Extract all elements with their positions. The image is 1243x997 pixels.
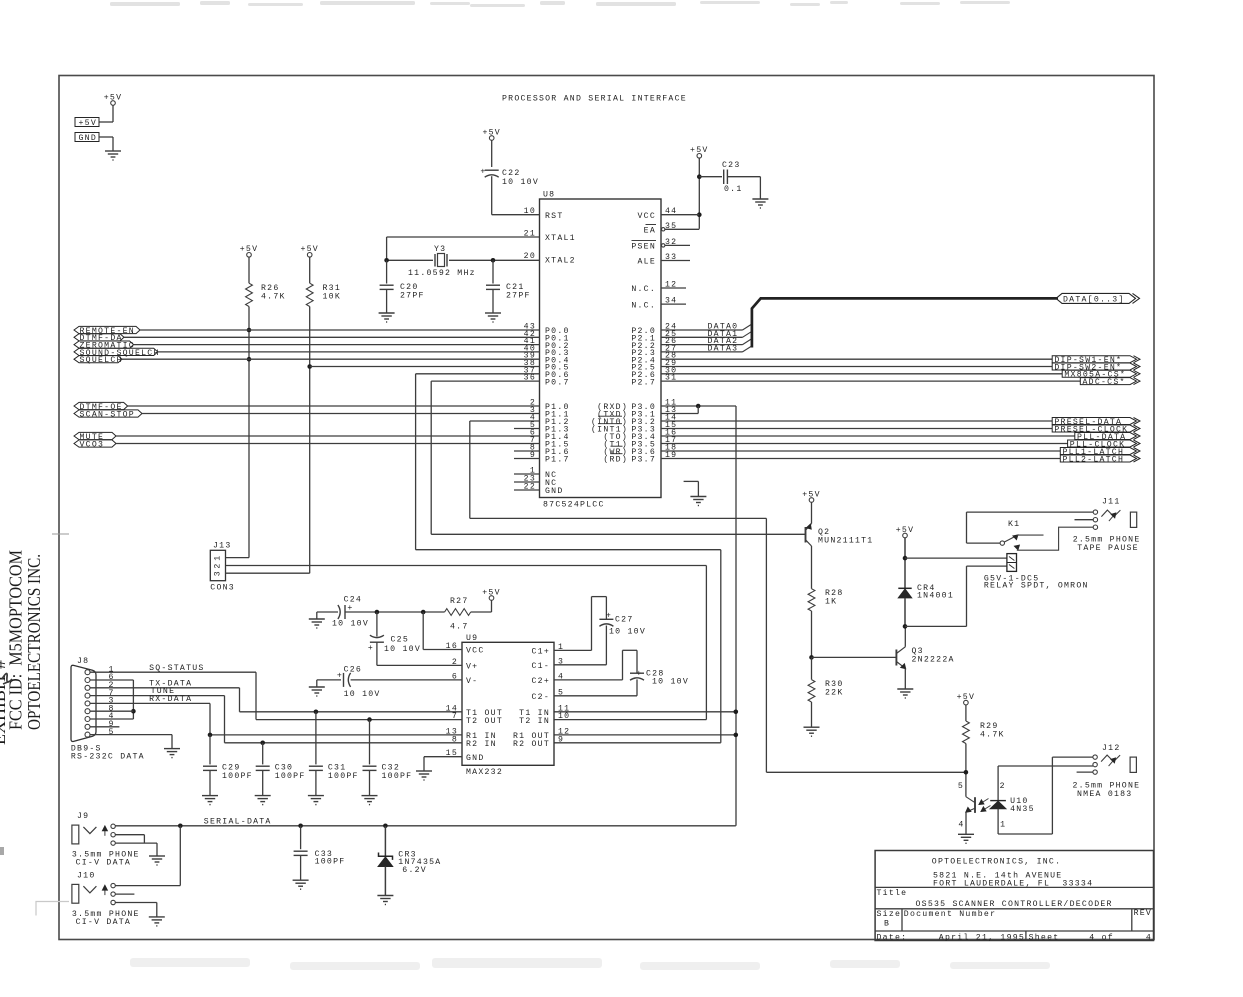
svg-text:DATA3: DATA3 bbox=[708, 344, 739, 353]
svg-text:V-: V- bbox=[466, 677, 478, 686]
svg-text:11.0592 MHz: 11.0592 MHz bbox=[408, 269, 476, 278]
svg-text:N.C.: N.C. bbox=[631, 285, 656, 294]
svg-text:GND: GND bbox=[79, 134, 98, 143]
svg-text:4: 4 bbox=[958, 821, 964, 830]
svg-text:C1+: C1+ bbox=[532, 648, 551, 657]
svg-text:EXHIBIT #: EXHIBIT # bbox=[0, 660, 9, 745]
svg-text:SCAN-STOP: SCAN-STOP bbox=[80, 410, 135, 419]
svg-text:REV: REV bbox=[1134, 909, 1153, 918]
svg-text:P0.7: P0.7 bbox=[545, 378, 570, 387]
svg-text:+: + bbox=[368, 644, 374, 653]
svg-text:10 10V: 10 10V bbox=[502, 178, 539, 187]
svg-text:MAX232: MAX232 bbox=[466, 768, 503, 777]
svg-text:GND: GND bbox=[545, 487, 564, 496]
svg-text:100PF: 100PF bbox=[315, 857, 346, 866]
svg-text:April 21, 1995: April 21, 1995 bbox=[939, 932, 1025, 942]
svg-text:B: B bbox=[884, 919, 890, 928]
svg-text:PSEN: PSEN bbox=[631, 243, 656, 252]
svg-text:XTAL1: XTAL1 bbox=[545, 234, 576, 243]
svg-text:+5V: +5V bbox=[802, 490, 821, 499]
svg-text:R2 OUT: R2 OUT bbox=[513, 740, 550, 749]
svg-text:T2 IN: T2 IN bbox=[519, 717, 550, 726]
svg-text:J11: J11 bbox=[1102, 498, 1121, 507]
svg-text:ALE: ALE bbox=[638, 258, 657, 267]
svg-text:C2-: C2- bbox=[532, 693, 551, 702]
svg-text:Sheet: Sheet bbox=[1029, 932, 1060, 942]
svg-text:3: 3 bbox=[214, 570, 223, 576]
svg-text:V+: V+ bbox=[466, 663, 478, 672]
svg-text:RX-DATA: RX-DATA bbox=[149, 695, 192, 704]
svg-text:10K: 10K bbox=[323, 293, 342, 302]
svg-text:5: 5 bbox=[109, 728, 115, 737]
svg-text:10 10V: 10 10V bbox=[384, 645, 421, 654]
svg-text:Document Number: Document Number bbox=[904, 909, 996, 919]
svg-text:C22: C22 bbox=[502, 169, 521, 178]
svg-text:27PF: 27PF bbox=[506, 292, 531, 301]
svg-text:P3.7: P3.7 bbox=[631, 456, 656, 465]
svg-text:+5V: +5V bbox=[482, 588, 501, 597]
svg-text:+5V: +5V bbox=[896, 526, 915, 535]
svg-text:100PF: 100PF bbox=[222, 772, 253, 781]
svg-text:22K: 22K bbox=[825, 689, 844, 698]
svg-text:RELAY SPDT, OMRON: RELAY SPDT, OMRON bbox=[984, 582, 1089, 591]
svg-text:+5V: +5V bbox=[300, 245, 319, 254]
svg-text:4.7K: 4.7K bbox=[980, 731, 1005, 740]
svg-text:XTAL2: XTAL2 bbox=[545, 257, 576, 266]
svg-text:C27: C27 bbox=[615, 616, 634, 625]
svg-text:4N35: 4N35 bbox=[1010, 805, 1035, 814]
svg-text:1: 1 bbox=[1000, 821, 1006, 830]
svg-text:2: 2 bbox=[1000, 782, 1006, 791]
svg-text:87C524PLCC: 87C524PLCC bbox=[543, 501, 605, 510]
svg-text:+5V: +5V bbox=[957, 693, 976, 702]
svg-text:VCC: VCC bbox=[466, 647, 485, 656]
svg-text:10 10V: 10 10V bbox=[652, 678, 689, 687]
svg-text:1N4001: 1N4001 bbox=[917, 592, 954, 601]
svg-text:+: + bbox=[480, 168, 486, 177]
svg-text:MUN2111T1: MUN2111T1 bbox=[818, 537, 873, 546]
svg-text:+: + bbox=[636, 670, 642, 679]
svg-text:SERIAL-DATA: SERIAL-DATA bbox=[204, 818, 272, 827]
svg-text:10 10V: 10 10V bbox=[609, 628, 646, 637]
svg-text:1: 1 bbox=[214, 555, 223, 561]
svg-text:R27: R27 bbox=[450, 597, 469, 606]
svg-text:OPTOELECTRONICS INC.: OPTOELECTRONICS INC. bbox=[24, 554, 44, 730]
svg-text:9: 9 bbox=[558, 735, 564, 744]
svg-text:VCO3: VCO3 bbox=[80, 440, 105, 449]
svg-text:100PF: 100PF bbox=[382, 772, 413, 781]
svg-text:C2+: C2+ bbox=[532, 677, 551, 686]
svg-text:5: 5 bbox=[958, 782, 964, 791]
svg-text:+5V: +5V bbox=[104, 93, 123, 102]
svg-text:100PF: 100PF bbox=[328, 772, 359, 781]
svg-text:Y3: Y3 bbox=[434, 245, 446, 254]
svg-text:J9: J9 bbox=[77, 812, 89, 821]
svg-text:VCC: VCC bbox=[638, 212, 657, 221]
svg-text:+5V: +5V bbox=[240, 245, 259, 254]
svg-text:C23: C23 bbox=[722, 161, 741, 170]
svg-text:0.1: 0.1 bbox=[724, 185, 743, 194]
svg-text:DATA[0..3]: DATA[0..3] bbox=[1063, 295, 1125, 305]
svg-text:2N2222A: 2N2222A bbox=[912, 656, 955, 665]
svg-text:P2.7: P2.7 bbox=[631, 378, 656, 387]
svg-text:EA: EA bbox=[644, 227, 656, 236]
svg-text:1K: 1K bbox=[825, 598, 837, 607]
svg-text:PROCESSOR AND SERIAL INTERFACE: PROCESSOR AND SERIAL INTERFACE bbox=[502, 95, 687, 104]
svg-text:J10: J10 bbox=[77, 872, 96, 881]
svg-text:CI-V DATA: CI-V DATA bbox=[76, 859, 131, 868]
svg-text:4.7: 4.7 bbox=[450, 623, 469, 632]
svg-text:Size: Size bbox=[877, 909, 902, 919]
svg-text:+5V: +5V bbox=[79, 119, 98, 128]
svg-text:RS-232C DATA: RS-232C DATA bbox=[71, 752, 145, 761]
svg-text:4.7K: 4.7K bbox=[261, 293, 286, 302]
svg-text:2: 2 bbox=[214, 562, 223, 568]
svg-text:C25: C25 bbox=[391, 636, 410, 645]
svg-text:OPTOELECTRONICS, INC.: OPTOELECTRONICS, INC. bbox=[932, 858, 1061, 867]
svg-text:SQ-STATUS: SQ-STATUS bbox=[149, 664, 204, 673]
svg-text:CI-V DATA: CI-V DATA bbox=[76, 918, 131, 927]
svg-text:U9: U9 bbox=[466, 634, 478, 643]
svg-text:Title: Title bbox=[877, 888, 908, 898]
svg-text:Date:: Date: bbox=[877, 933, 908, 942]
svg-text:+: + bbox=[606, 612, 612, 621]
svg-text:+: + bbox=[337, 672, 343, 681]
svg-text:10 10V: 10 10V bbox=[344, 690, 381, 699]
svg-text:U8: U8 bbox=[543, 191, 555, 200]
svg-text:N.C.: N.C. bbox=[631, 301, 656, 310]
svg-text:C1-: C1- bbox=[532, 662, 551, 671]
svg-text:C26: C26 bbox=[344, 666, 363, 675]
svg-text:+5V: +5V bbox=[690, 146, 709, 155]
svg-text:+5V: +5V bbox=[482, 128, 501, 137]
svg-text:GND: GND bbox=[466, 754, 485, 763]
svg-text:6.2V: 6.2V bbox=[402, 866, 427, 875]
svg-text:PLL2-LATCH: PLL2-LATCH bbox=[1063, 455, 1125, 464]
svg-text:(RD): (RD) bbox=[603, 455, 628, 465]
svg-text:J8: J8 bbox=[77, 657, 89, 666]
svg-text:100PF: 100PF bbox=[275, 772, 306, 781]
svg-text:OS535 SCANNER CONTROLLER/DECOD: OS535 SCANNER CONTROLLER/DECODER bbox=[916, 899, 1113, 909]
svg-text:27PF: 27PF bbox=[400, 292, 425, 301]
svg-text:4: 4 bbox=[1146, 933, 1152, 942]
svg-text:RST: RST bbox=[545, 212, 564, 221]
svg-text:J13: J13 bbox=[213, 542, 232, 551]
svg-text:K1: K1 bbox=[1008, 520, 1020, 529]
svg-text:10: 10 bbox=[558, 712, 570, 721]
svg-text:4 of: 4 of bbox=[1089, 932, 1114, 942]
svg-text:T2 OUT: T2 OUT bbox=[466, 717, 503, 726]
svg-text:ADC-CS*: ADC-CS* bbox=[1083, 377, 1126, 387]
svg-text:FORT LAUDERDALE, FL 33334: FORT LAUDERDALE, FL 33334 bbox=[933, 880, 1093, 889]
svg-text:C24: C24 bbox=[344, 596, 363, 605]
svg-text:J12: J12 bbox=[1102, 744, 1121, 753]
svg-text:NMEA 0183: NMEA 0183 bbox=[1077, 790, 1132, 799]
svg-text:R2 IN: R2 IN bbox=[466, 740, 497, 749]
svg-text:SQUELCH: SQUELCH bbox=[80, 356, 123, 365]
svg-text:10 10V: 10 10V bbox=[332, 620, 369, 629]
svg-text:TAPE PAUSE: TAPE PAUSE bbox=[1077, 544, 1139, 553]
svg-text:P1.7: P1.7 bbox=[545, 456, 570, 465]
svg-text:CON3: CON3 bbox=[210, 584, 235, 593]
